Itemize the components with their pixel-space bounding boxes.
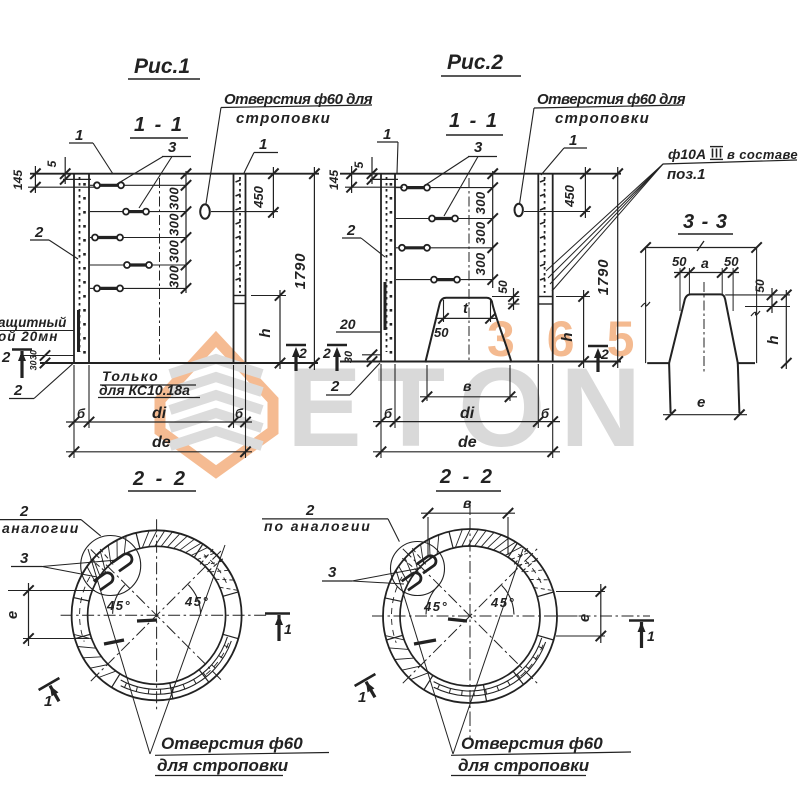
fig1 label 3 + leaders [117, 139, 191, 208]
fig2 bottom section mark 2 right [588, 346, 608, 372]
title Ris.2 [441, 51, 521, 76]
diagonal centerlines 45deg [403, 549, 537, 683]
svg-text:1: 1 [284, 621, 292, 637]
circle2 label 3 + leaders [322, 564, 421, 584]
fig2 bottom extension lines [381, 364, 553, 458]
3-3 centerline [703, 282, 705, 374]
svg-text:5: 5 [352, 161, 366, 168]
fig1 label 1 left + leader [69, 127, 113, 174]
fig2 dim 1790 [595, 167, 623, 368]
fig2 right wall [538, 174, 552, 362]
svg-text:б: б [77, 406, 86, 421]
svg-text:300: 300 [473, 252, 488, 275]
svg-text:300: 300 [167, 265, 182, 288]
fig2 dim 50 right [492, 280, 520, 310]
svg-text:по аналогии: по аналогии [264, 518, 372, 534]
fig1 dim 145 [11, 166, 96, 193]
circle2 text otverstia f60 [451, 734, 631, 776]
fig2 dim de row [373, 434, 560, 457]
svg-text:1 - 1: 1 - 1 [449, 110, 499, 132]
svg-text:145: 145 [11, 170, 25, 190]
circle section 2-2 right [372, 518, 583, 714]
detail circle [391, 542, 445, 596]
svg-text:2: 2 [322, 345, 331, 361]
fig1 dim 450 [251, 167, 279, 218]
svg-text:300: 300 [167, 213, 182, 236]
circle1 section mark 1 bottom left [39, 678, 70, 707]
svg-text:для КС10.18а: для КС10.18а [99, 382, 190, 398]
fig1 left section mark 2 [1, 349, 32, 378]
svg-text:e: e [697, 394, 705, 411]
svg-text:для строповки: для строповки [157, 756, 289, 775]
svg-text:строповки: строповки [555, 110, 650, 127]
svg-text:1: 1 [383, 126, 391, 143]
3-3 dim 50 right [725, 279, 790, 313]
fig1 dim 30 bottom left [20, 350, 74, 371]
fig1 right wall rebar ticks [236, 180, 241, 280]
svg-text:2: 2 [330, 378, 340, 395]
circle1 45deg labels [106, 585, 209, 614]
svg-text:30: 30 [29, 350, 39, 360]
svg-text:45°: 45° [106, 598, 131, 613]
strop hole hidden lines [90, 549, 222, 572]
watermark hexagon logo [160, 339, 273, 472]
ring segment boundaries [74, 533, 239, 699]
svg-text:a: a [701, 255, 709, 271]
circle2 dim e [556, 584, 606, 643]
svg-text:1: 1 [259, 136, 267, 153]
fig1 centerline [159, 178, 161, 362]
fig1 label 2 left + leader [30, 224, 78, 259]
fig2 dim v (width) [420, 365, 517, 402]
svg-text:2: 2 [346, 222, 356, 239]
svg-text:2: 2 [13, 382, 23, 399]
ring dashed texture arcs [80, 555, 229, 675]
fig2 dim 145 [327, 166, 403, 193]
ring outer circle [72, 530, 242, 700]
label section 1-1 right [446, 110, 503, 135]
svg-text:б: б [235, 406, 244, 421]
fig1 strop hole [200, 204, 278, 218]
svg-text:50: 50 [753, 279, 767, 293]
fig2 label 1 left + leader [377, 126, 398, 173]
svg-text:2: 2 [600, 346, 609, 362]
ring hatching top [142, 530, 208, 555]
title Ris.1 [128, 55, 200, 79]
ring hatching lower left [385, 636, 429, 680]
fig2 dim h [556, 290, 590, 368]
svg-text:h: h [765, 335, 782, 344]
svg-text:2 - 2: 2 - 2 [132, 468, 188, 490]
svg-text:в: в [463, 495, 472, 511]
fig2 dim 30 [343, 350, 381, 367]
fig2 label 20 + leader [336, 316, 381, 332]
svg-text:e: e [4, 611, 21, 619]
circle1 dim e [4, 583, 95, 646]
ring inner circle [400, 546, 540, 686]
svg-text:300: 300 [167, 239, 182, 262]
fig2 trapezoid joint profile [425, 298, 511, 363]
ring inner circle [88, 546, 226, 684]
svg-text:1790: 1790 [595, 259, 612, 296]
svg-text:Рис.1: Рис.1 [134, 55, 190, 78]
fig1 text zashchitny sloy 20mm [0, 315, 74, 344]
fig1 dim di row [66, 405, 252, 427]
fig2 dim di row [373, 405, 560, 427]
fig2 text otverstia hole note [520, 91, 686, 204]
svg-text:б: б [541, 406, 550, 421]
ring segment boundaries [385, 532, 554, 702]
circle2 staples item 3 [402, 554, 438, 591]
fig1 dim de row [66, 434, 252, 457]
svg-text:для строповки: для строповки [458, 756, 590, 775]
fig2 left wall [381, 174, 395, 362]
svg-text:50: 50 [496, 280, 510, 294]
fig2 right wall rebar ticks [540, 180, 545, 280]
svg-text:ой 20мн: ой 20мн [0, 329, 58, 344]
fig1 right wall [234, 174, 246, 363]
circle2 dim v top [421, 495, 515, 557]
circle section 2-2 left [61, 519, 268, 711]
fig2 label 2 bottom left + leader [326, 363, 380, 395]
fig1 title 2-2 [128, 468, 196, 491]
circle2 section mark 1 bottom left [355, 674, 386, 703]
svg-text:e: e [576, 614, 593, 622]
circle2 centerline extensions [470, 503, 650, 740]
fig1 bar connector lines [90, 185, 186, 288]
fig1 bottom extension lines [74, 365, 246, 458]
fig2 label 2 left + leader [342, 222, 385, 257]
ring hatching upper left [87, 536, 126, 583]
svg-text:2: 2 [305, 502, 315, 519]
fig2 bottom edge line [340, 361, 621, 363]
circle1 staples item 3 [94, 552, 134, 591]
fig2 title 2-2 [436, 466, 501, 491]
fig1 bottom edge line [40, 362, 318, 364]
svg-text:Рис.2: Рис.2 [447, 51, 503, 74]
svg-text:300: 300 [473, 221, 488, 244]
svg-text:300: 300 [167, 187, 182, 210]
svg-text:поз.1: поз.1 [667, 166, 706, 183]
fig1 left wall [74, 174, 89, 363]
svg-text:1: 1 [569, 132, 577, 149]
ring hatching upper right dashed [511, 552, 553, 590]
3-3 profile outline [647, 294, 755, 413]
svg-text:3: 3 [168, 139, 177, 156]
strop hole hidden lines [402, 548, 537, 572]
svg-text:1 - 1: 1 - 1 [134, 114, 184, 136]
svg-text:Отверстия ф60: Отверстия ф60 [461, 734, 603, 753]
svg-text:1: 1 [647, 628, 655, 644]
svg-text:365: 365 [487, 311, 666, 367]
3-3 dim e [663, 394, 747, 420]
fig1 300 dim chain [167, 169, 192, 294]
title 3-3 [678, 211, 733, 234]
svg-text:2: 2 [19, 503, 29, 520]
svg-text:2: 2 [1, 349, 11, 366]
svg-text:1: 1 [75, 127, 83, 144]
3-3 dim 50 a 50 [672, 254, 739, 311]
fig2 dim 5 [352, 157, 377, 185]
ring hatching upper left [399, 535, 439, 583]
circle1 thick dashes [104, 620, 157, 644]
fig1 text otverstia hole note [206, 91, 373, 205]
svg-text:50: 50 [724, 254, 739, 269]
svg-text:строповки: строповки [236, 110, 331, 127]
svg-text:1790: 1790 [292, 253, 309, 290]
svg-text:h: h [559, 332, 576, 341]
svg-text:1: 1 [44, 693, 52, 710]
svg-text:di: di [460, 405, 475, 422]
svg-text:ащитный: ащитный [0, 315, 67, 330]
fig2 top edge line [340, 174, 621, 180]
circle2 45deg labels [423, 585, 515, 614]
fig2 300 dim chain [473, 169, 498, 289]
svg-text:2: 2 [298, 345, 307, 361]
center lines [61, 519, 268, 711]
svg-text:450: 450 [251, 185, 266, 208]
circle1 label 2 analogii [0, 503, 101, 536]
ring hatching upper right dashed [197, 553, 238, 590]
fig2 label 3 + leaders [424, 139, 497, 216]
svg-text:50: 50 [434, 325, 449, 340]
fig1 dim 5 [45, 157, 70, 185]
fig2 dim 450 [562, 167, 591, 218]
svg-text:30: 30 [29, 360, 39, 370]
label f10AIII v sostave poz.1 [663, 146, 798, 183]
svg-text:5: 5 [45, 160, 59, 167]
fig1 bottom section mark 2 right [286, 345, 306, 371]
label section 1-1 left [130, 114, 188, 138]
fig2 centerline [468, 178, 470, 360]
svg-text:30: 30 [343, 350, 355, 363]
svg-text:50: 50 [672, 254, 687, 269]
circle1 label 3 + leaders [11, 550, 117, 577]
fig1 top edge line [30, 174, 319, 180]
svg-text:di: di [152, 405, 167, 422]
svg-text:2 - 2: 2 - 2 [439, 466, 495, 488]
3-3 side extension lines [641, 248, 760, 364]
ring outer circle [383, 529, 557, 703]
svg-text:300: 300 [473, 191, 488, 214]
svg-text:3 - 3: 3 - 3 [683, 211, 728, 233]
fig1 note tolko dlya KS10.18a [98, 368, 200, 398]
diagonal centerlines 45deg [91, 550, 223, 682]
ring bottom rebar arcs [121, 637, 232, 694]
svg-text:б: б [384, 406, 393, 421]
svg-text:de: de [152, 434, 171, 451]
svg-text:145: 145 [327, 170, 341, 190]
fig2 left wall rebar dots [390, 183, 393, 354]
circle1 section mark 1 right [265, 614, 292, 642]
fig1 dim h [251, 290, 286, 369]
svg-text:h: h [257, 328, 274, 337]
fig1 label 1 right + leader [244, 136, 278, 173]
circle2 label 2 po analogii [262, 502, 399, 542]
circle1 text otverstia f60 [155, 734, 329, 776]
circle1 leader lines to holes [88, 545, 225, 754]
svg-text:3: 3 [328, 564, 337, 581]
fig1 dim 1790 [292, 167, 320, 370]
3-3 top dim line [640, 241, 761, 253]
fig2 dim t [437, 300, 497, 324]
circle2 section mark 1 right [629, 621, 655, 649]
fig1 rebar bars [92, 182, 152, 291]
svg-text:3: 3 [20, 550, 29, 567]
fig2 strop hole [515, 204, 591, 216]
svg-text:Отверстия ф60: Отверстия ф60 [161, 734, 303, 753]
fig2 label 1 right + leader [541, 132, 587, 175]
svg-text:аналогии: аналогии [2, 520, 80, 536]
svg-text:450: 450 [562, 184, 577, 207]
fig2 bar connector lines [396, 188, 493, 280]
circle2 leader lines to holes [396, 549, 523, 754]
ring bottom rebar arcs [434, 638, 546, 696]
detail circle [81, 536, 141, 596]
svg-text:1: 1 [358, 689, 366, 706]
svg-text:20: 20 [339, 316, 356, 332]
svg-text:2: 2 [34, 224, 44, 241]
3-3 dim h [765, 290, 792, 369]
fig2 rebar bars [399, 185, 460, 283]
svg-text:в: в [463, 378, 472, 394]
fig2 bottom section mark 2 left [327, 345, 347, 371]
center lines [372, 518, 583, 714]
svg-text:3: 3 [474, 139, 483, 156]
fan leader lines to fig2 right wall [546, 164, 663, 291]
fig1 left wall rebar dots [83, 183, 86, 354]
ring dashed texture arcs [391, 554, 543, 676]
fig1 label 2 bottom left + leader [9, 364, 73, 400]
svg-text:ф10А: ф10А [668, 146, 706, 162]
svg-text:de: de [458, 434, 477, 451]
ring hatching lower left [74, 634, 116, 677]
ring hatching top [455, 529, 522, 555]
circle2 thick dashes [414, 619, 467, 644]
